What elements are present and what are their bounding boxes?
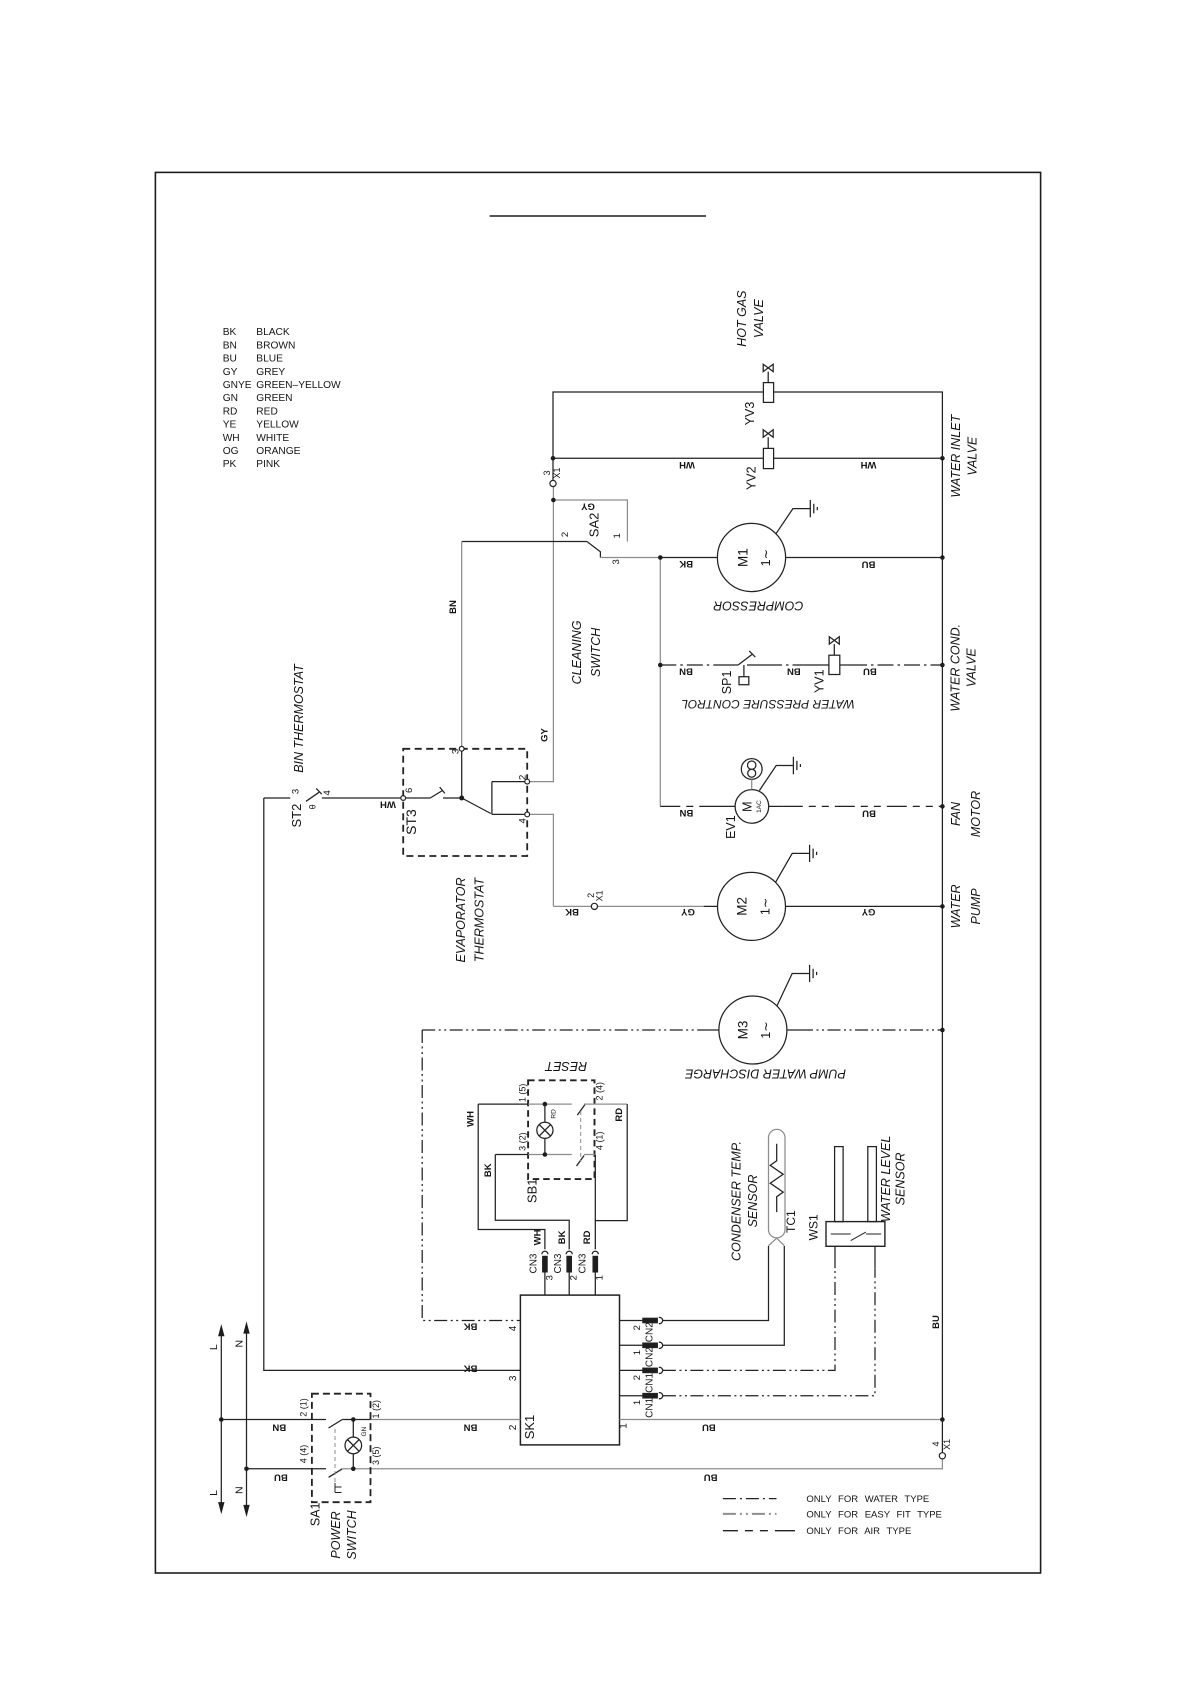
- svg-text:WATER: WATER: [949, 884, 963, 928]
- connector CN2 pin2 row to TC1: [620, 1246, 769, 1321]
- svg-text:ONLY FOR EASY FIT TYPE: ONLY FOR EASY FIT TYPE: [806, 1509, 942, 1520]
- pressure sensor SP1 box: [743, 665, 745, 677]
- wire: SB1 bottom rail to pin 4(1): [584, 1154, 595, 1156]
- svg-text:2: 2: [508, 1424, 519, 1430]
- svg-text:1: 1: [618, 1423, 629, 1429]
- ground (fan motor): [759, 757, 800, 791]
- type legend text: [806, 1494, 942, 1537]
- svg-text:N: N: [233, 1486, 245, 1494]
- svg-text:4: 4: [322, 790, 333, 795]
- wire: compressor row: [660, 557, 942, 559]
- svg-text:2: 2: [517, 775, 528, 780]
- svg-text:GY: GY: [861, 906, 875, 917]
- svg-text:4 (4): 4 (4): [298, 1445, 308, 1464]
- valve YV3 symbol: [763, 364, 773, 382]
- legend line: only for air type: [723, 1530, 795, 1532]
- svg-text:1 (2): 1 (2): [371, 1400, 381, 1419]
- svg-text:1: 1: [612, 533, 623, 538]
- svg-text:GY: GY: [680, 906, 694, 917]
- svg-text:RD: RD: [582, 1230, 593, 1244]
- pin number labels (rotated -90): [291, 532, 656, 1465]
- svg-text:GREY: GREY: [256, 367, 285, 378]
- svg-text:BK: BK: [483, 1163, 494, 1177]
- supply labels L/N (rotated -90): [208, 1340, 245, 1496]
- svg-text:OG: OG: [223, 446, 239, 457]
- svg-text:SA2: SA2: [586, 513, 601, 538]
- valve YV2 coil: [763, 448, 773, 468]
- svg-text:WATER PRESSURE CONTROL: WATER PRESSURE CONTROL: [681, 697, 855, 711]
- svg-text:RESET: RESET: [544, 1059, 587, 1073]
- wire: SK1 pin2 row (grey): [371, 1419, 521, 1421]
- wire: right supply bus: [941, 458, 943, 1452]
- svg-text:BU: BU: [274, 1471, 288, 1482]
- svg-text:COMPRESSOR: COMPRESSOR: [713, 598, 803, 612]
- sensor TC1 bulb: [769, 1129, 786, 1237]
- WS1 electrodes: [835, 1147, 844, 1222]
- svg-text:1∼: 1∼: [759, 1021, 773, 1038]
- wire: RD path to CN3:1: [595, 1104, 627, 1249]
- svg-text:SB1: SB1: [525, 1179, 540, 1204]
- svg-text:BN: BN: [223, 340, 237, 351]
- motor M1 compressor circle: [717, 523, 785, 591]
- terminal X1:2: [591, 903, 597, 909]
- valve YV1 symbol: [829, 637, 839, 656]
- svg-text:GN: GN: [223, 393, 238, 404]
- svg-text:BK: BK: [223, 327, 237, 338]
- svg-text:BK: BK: [464, 1320, 478, 1331]
- svg-text:SK1: SK1: [522, 1415, 537, 1440]
- wire: SB1 top rail (WH side): [478, 1103, 528, 1105]
- wire: WH path to CN3:3: [478, 1104, 545, 1249]
- lamp GN in SA1: [352, 1420, 354, 1469]
- switch ST3 contact from pin6: [406, 787, 462, 798]
- svg-text:2: 2: [560, 532, 571, 537]
- svg-text:BK: BK: [557, 1230, 568, 1244]
- svg-text:4: 4: [508, 1325, 519, 1331]
- svg-text:BU: BU: [223, 354, 237, 365]
- svg-text:BN: BN: [679, 807, 693, 818]
- switch SP1 blade: [738, 651, 755, 665]
- wire: easy-fit vertical to SK1 pin4: [422, 1030, 520, 1321]
- italic area labels (rotated 180): [544, 598, 855, 1080]
- svg-text:BU: BU: [862, 559, 876, 570]
- svg-text:GREEN–YELLOW: GREEN–YELLOW: [256, 380, 341, 391]
- svg-text:BN: BN: [448, 600, 459, 614]
- mechanical link SA1: [334, 1429, 336, 1483]
- svg-text:X1: X1: [594, 890, 604, 901]
- svg-text:GN: GN: [361, 1426, 368, 1436]
- switch SA2 blade: [587, 542, 601, 558]
- valve YV2 symbol: [763, 430, 773, 449]
- motor M2 water pump circle: [718, 872, 786, 940]
- svg-text:ST2: ST2: [289, 804, 304, 828]
- svg-text:GY: GY: [580, 500, 594, 511]
- svg-text:CN3: CN3: [529, 1253, 540, 1273]
- wire: pump water discharge row (only for easy fit type): [422, 1029, 706, 1031]
- svg-text:1AC: 1AC: [756, 800, 763, 813]
- svg-text:CN1: CN1: [644, 1372, 655, 1392]
- lamp RD in SB1: [544, 1104, 546, 1154]
- svg-text:RED: RED: [256, 406, 278, 417]
- svg-text:M2: M2: [734, 897, 749, 916]
- svg-text:CN2: CN2: [644, 1322, 655, 1342]
- svg-text:2: 2: [632, 1375, 643, 1380]
- svg-text:1∼: 1∼: [759, 549, 773, 566]
- svg-text:WS1: WS1: [807, 1214, 821, 1240]
- wire: GY vertical SA2 to ST3 pin2 (grey): [530, 500, 554, 782]
- svg-text:3 (5): 3 (5): [371, 1446, 381, 1465]
- wire: X1:3 to SA2 (grey): [552, 487, 554, 500]
- svg-text:BU: BU: [931, 1315, 942, 1329]
- svg-text:3: 3: [291, 789, 302, 794]
- svg-text:WHITE: WHITE: [256, 433, 289, 444]
- supply arrows L/N: [218, 1321, 250, 1517]
- svg-text:CN2: CN2: [644, 1347, 655, 1367]
- sensor WS1 body: [826, 1222, 885, 1247]
- thermostat ST2 wire: [264, 797, 291, 799]
- wire: BN to SA2 pin2: [462, 541, 587, 543]
- ST3 pin 3: [459, 746, 464, 751]
- svg-text:SA1: SA1: [309, 1502, 323, 1526]
- svg-text:BLACK: BLACK: [256, 327, 290, 338]
- ST3 pin 4: [525, 812, 530, 817]
- svg-text:M1: M1: [735, 548, 750, 567]
- italic area labels (rotated -90): [292, 290, 983, 1560]
- svg-text:EV1: EV1: [724, 815, 738, 839]
- wire: fan motor row (only for air type): [660, 805, 701, 807]
- svg-text:RD: RD: [614, 1108, 625, 1122]
- switch ST2 blade: [306, 788, 322, 801]
- fan symbol: [741, 759, 762, 780]
- svg-text:X1: X1: [942, 1439, 952, 1450]
- svg-text:BU: BU: [702, 1421, 716, 1432]
- wire: water inlet valve row (WH): [553, 457, 942, 459]
- svg-text:1: 1: [632, 1400, 643, 1405]
- svg-text:ONLY FOR AIR TYPE: ONLY FOR AIR TYPE: [806, 1526, 911, 1537]
- svg-text:BN: BN: [679, 665, 693, 676]
- svg-text:BK: BK: [565, 906, 579, 917]
- motor EV1 circle: [735, 790, 769, 824]
- svg-text:WH: WH: [466, 1111, 477, 1127]
- svg-text:VALVE: VALVE: [965, 648, 979, 688]
- connector CN1 pin1 row to WS1: [620, 1395, 643, 1397]
- svg-text:WATER INLET: WATER INLET: [949, 413, 963, 497]
- wire: hot gas valve branch (top loop): [553, 392, 942, 458]
- svg-text:CN3: CN3: [553, 1253, 564, 1273]
- valve YV1 coil: [829, 655, 840, 674]
- svg-text:2: 2: [569, 1275, 580, 1280]
- svg-text:ONLY FOR WATER TYPE: ONLY FOR WATER TYPE: [806, 1494, 929, 1505]
- svg-text:VALVE: VALVE: [965, 436, 979, 476]
- svg-text:CONDENSER TEMP.: CONDENSER TEMP.: [729, 1141, 743, 1261]
- supply line L: [220, 1330, 222, 1508]
- svg-text:3: 3: [542, 470, 552, 475]
- svg-text:X1: X1: [552, 467, 562, 478]
- svg-text:FAN: FAN: [949, 801, 963, 826]
- switch SB1 bottom blade: [577, 1156, 585, 1167]
- ST3 pin 2: [525, 779, 530, 784]
- switch inside WS1: [831, 1232, 881, 1241]
- svg-text:BU: BU: [862, 808, 876, 819]
- svg-text:ST3: ST3: [403, 809, 419, 835]
- svg-text:θ: θ: [308, 804, 318, 809]
- power switch SA1 box: [312, 1394, 371, 1503]
- svg-text:BN: BN: [272, 1421, 286, 1432]
- svg-text:6: 6: [404, 788, 415, 793]
- svg-text:BROWN: BROWN: [256, 340, 295, 351]
- terminal labels X1 (rotated -90): [542, 467, 952, 1449]
- svg-text:L: L: [208, 1344, 220, 1350]
- svg-text:1: 1: [632, 1350, 643, 1355]
- wire: SK1 pin1 row BU to bus (grey): [620, 1419, 943, 1421]
- svg-text:SENSOR: SENSOR: [893, 1153, 907, 1206]
- svg-text:M: M: [741, 801, 755, 811]
- svg-text:2 (4): 2 (4): [595, 1082, 605, 1101]
- wire: ST3 pin4 to X1:2 (grey): [530, 814, 554, 906]
- svg-text:4 (1): 4 (1): [595, 1132, 605, 1151]
- svg-text:WH: WH: [380, 798, 396, 809]
- title line: [490, 215, 706, 217]
- wire: BK path to CN3:2: [495, 1155, 569, 1250]
- svg-text:BU: BU: [863, 666, 877, 677]
- ground (water pump): [776, 845, 817, 883]
- svg-text:BN: BN: [464, 1421, 478, 1432]
- switch SA1 blade (BU): [329, 1469, 343, 1478]
- connector CN1 pin2 row to WS1: [620, 1369, 643, 1371]
- thermostat ST3 box: [403, 749, 527, 856]
- svg-text:EVAPORATOR: EVAPORATOR: [454, 878, 468, 963]
- svg-text:VALVE: VALVE: [752, 298, 766, 338]
- svg-text:BN: BN: [787, 665, 801, 676]
- svg-text:YELLOW: YELLOW: [256, 420, 299, 431]
- svg-text:BLUE: BLUE: [256, 354, 283, 365]
- connector plugs CN2/CN1: [643, 1318, 657, 1322]
- svg-text:YE: YE: [223, 420, 237, 431]
- svg-text:BU: BU: [704, 1471, 718, 1482]
- svg-text:TC1: TC1: [784, 1210, 798, 1233]
- ground (compressor): [776, 500, 817, 534]
- wire: BK vertical to pressure/fan rows (grey): [659, 558, 661, 807]
- controller SK1 box: [520, 1295, 619, 1445]
- svg-text:M3: M3: [735, 1021, 750, 1040]
- svg-text:GY: GY: [539, 727, 550, 741]
- svg-text:PUMP: PUMP: [969, 888, 983, 925]
- wire: ST2 to ST3 pin6 (WH): [322, 797, 401, 799]
- svg-text:CN3: CN3: [577, 1253, 588, 1273]
- svg-text:2: 2: [632, 1325, 643, 1330]
- wire: BN vertical ST3 pin3 to SA2 (grey): [461, 542, 463, 747]
- ground (discharge pump): [777, 965, 817, 1006]
- svg-text:WATER LEVEL: WATER LEVEL: [879, 1136, 893, 1222]
- svg-text:BIN THERMOSTAT: BIN THERMOSTAT: [292, 663, 306, 773]
- svg-text:GREEN: GREEN: [256, 393, 292, 404]
- terminal circles: [401, 480, 946, 1459]
- svg-text:3: 3: [611, 559, 622, 564]
- switch ST3 changeover blade: [462, 798, 491, 814]
- svg-text:ORANGE: ORANGE: [256, 446, 300, 457]
- wire: ST3 junction to pin3: [461, 751, 463, 798]
- svg-text:SWITCH: SWITCH: [589, 627, 603, 677]
- wire: SA2 pin1 loop (grey): [553, 500, 627, 542]
- svg-text:CN1: CN1: [644, 1397, 655, 1417]
- svg-text:4: 4: [931, 1441, 941, 1446]
- svg-text:YV1: YV1: [813, 669, 827, 693]
- motor inner labels (rotated -90): [734, 548, 773, 1039]
- svg-text:PK: PK: [223, 459, 237, 470]
- svg-text:SP1: SP1: [720, 671, 734, 695]
- svg-text:HOT GAS: HOT GAS: [735, 290, 749, 347]
- terminal X1:3: [550, 480, 556, 486]
- svg-text:MOTOR: MOTOR: [969, 791, 983, 837]
- wire: SA2 pin3 to junction (grey): [600, 557, 660, 559]
- svg-text:L: L: [208, 1490, 220, 1496]
- wire: BN row power switch: [221, 1419, 326, 1421]
- thermistor inside TC1: [770, 1144, 783, 1212]
- svg-text:WH: WH: [223, 433, 240, 444]
- wire: water pump row (grey left part): [553, 905, 703, 907]
- wire: SB1 top rail to pin 2(4): [584, 1103, 627, 1105]
- valve YV3 coil: [763, 383, 773, 403]
- wire: SB1 bottom rail (BK side): [495, 1154, 528, 1156]
- svg-text:2 (1): 2 (1): [298, 1398, 308, 1417]
- svg-text:BK: BK: [679, 558, 693, 569]
- svg-text:N: N: [233, 1340, 245, 1348]
- motor M3 discharge pump circle: [719, 996, 787, 1064]
- wire: CN3 to SK1: [545, 1272, 595, 1295]
- svg-text:3: 3: [508, 1375, 519, 1381]
- legend line: only for easy fit type: [723, 1513, 777, 1515]
- svg-text:3: 3: [544, 1275, 555, 1280]
- svg-text:PUMP WATER DISCHARGE: PUMP WATER DISCHARGE: [684, 1066, 846, 1080]
- svg-text:4: 4: [517, 818, 528, 823]
- wire: water pressure control row (only for water type): [660, 664, 715, 666]
- svg-text:YV3: YV3: [743, 402, 757, 426]
- svg-text:WH: WH: [860, 459, 876, 470]
- switch SB1 top blade: [577, 1105, 585, 1116]
- svg-text:GY: GY: [223, 367, 238, 378]
- connector CN3 pins: [542, 1251, 598, 1254]
- mechanical link SB1: [580, 1111, 582, 1162]
- wire colour labels (rotated -90): [448, 600, 942, 1329]
- wire: left vertical to SK1 pin3: [264, 798, 521, 1370]
- color code legend: [223, 327, 341, 470]
- terminal X1:4: [939, 1453, 945, 1459]
- svg-text:CLEANING: CLEANING: [570, 620, 584, 684]
- svg-text:WH: WH: [679, 459, 695, 470]
- svg-text:1∼: 1∼: [759, 898, 773, 915]
- supply line N: [246, 1327, 248, 1511]
- wire: BN row into SK1 handled above; BU row: [247, 1468, 327, 1470]
- svg-text:THERMOSTAT: THERMOSTAT: [473, 877, 487, 963]
- legend line: only for water type: [723, 1498, 777, 1500]
- wire colour labels (rotated 180): [272, 459, 877, 1482]
- component designators (rotated -90): [289, 402, 827, 1526]
- svg-text:YV2: YV2: [745, 466, 759, 490]
- svg-text:RD: RD: [550, 1109, 557, 1119]
- wire: BU row to X1:4 (grey): [342, 1459, 942, 1469]
- connector CN2 pin1 row to TC1: [620, 1246, 785, 1345]
- svg-text:PINK: PINK: [256, 459, 280, 470]
- svg-text:GNYE: GNYE: [223, 380, 252, 391]
- svg-text:3: 3: [451, 749, 462, 754]
- svg-text:SENSOR: SENSOR: [746, 1175, 760, 1228]
- svg-text:1: 1: [595, 1275, 606, 1280]
- svg-text:WATER COND.: WATER COND.: [949, 624, 963, 712]
- wire: stub to terminal X1:3: [552, 458, 554, 480]
- wire: ST3 pin2/pin4 links: [492, 782, 525, 815]
- svg-text:RD: RD: [223, 406, 238, 417]
- switch SA1 blade (BN): [329, 1420, 343, 1429]
- svg-text:1 (5): 1 (5): [517, 1084, 527, 1103]
- svg-text:3 (2): 3 (2): [517, 1132, 527, 1151]
- svg-text:BK: BK: [464, 1362, 478, 1373]
- ST3 pin 6: [401, 796, 406, 801]
- pushbutton SB1 box: [528, 1080, 594, 1179]
- svg-text:POWER: POWER: [329, 1511, 343, 1558]
- svg-text:WH: WH: [532, 1229, 543, 1245]
- svg-text:SWITCH: SWITCH: [345, 1509, 359, 1559]
